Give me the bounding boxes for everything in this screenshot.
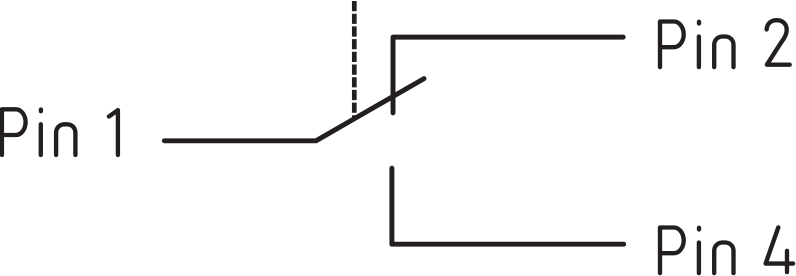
wire Pin 2 branch (fixed contact) [393,37,623,113]
wire Pin 1 lead and switch lever (movable contact) [164,79,424,141]
wire Pin 4 branch (fixed contact) [392,168,624,244]
label Pin 4 [660,227,793,273]
label Pin 2 [660,20,790,67]
label Pin 1 [2,109,118,155]
actuator dashed line [352,1,357,117]
